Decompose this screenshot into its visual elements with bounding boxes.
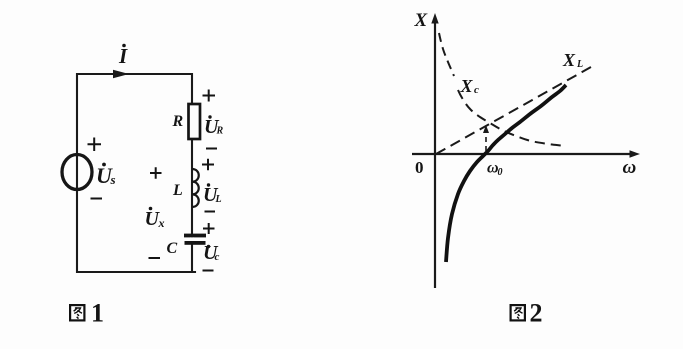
svg-text:s: s [110, 172, 116, 187]
svg-text:0: 0 [498, 167, 503, 178]
svg-text:0: 0 [415, 158, 424, 177]
svg-text:L: L [215, 194, 222, 205]
svg-text:X: X [562, 50, 576, 70]
svg-text:R: R [172, 113, 184, 130]
svg-text:X: X [414, 10, 429, 31]
svg-text:c: c [215, 251, 220, 263]
svg-text:2: 2 [530, 299, 543, 328]
svg-text:I: I [118, 44, 128, 68]
svg-text:C: C [167, 240, 178, 257]
svg-text:X: X [460, 76, 474, 96]
svg-text:L: L [576, 59, 583, 70]
svg-text:c: c [474, 84, 479, 96]
svg-text:R: R [216, 126, 224, 137]
svg-text:x: x [158, 216, 165, 230]
svg-text:ω: ω [623, 157, 637, 178]
svg-text:L: L [172, 182, 183, 199]
svg-text:1: 1 [91, 299, 104, 328]
